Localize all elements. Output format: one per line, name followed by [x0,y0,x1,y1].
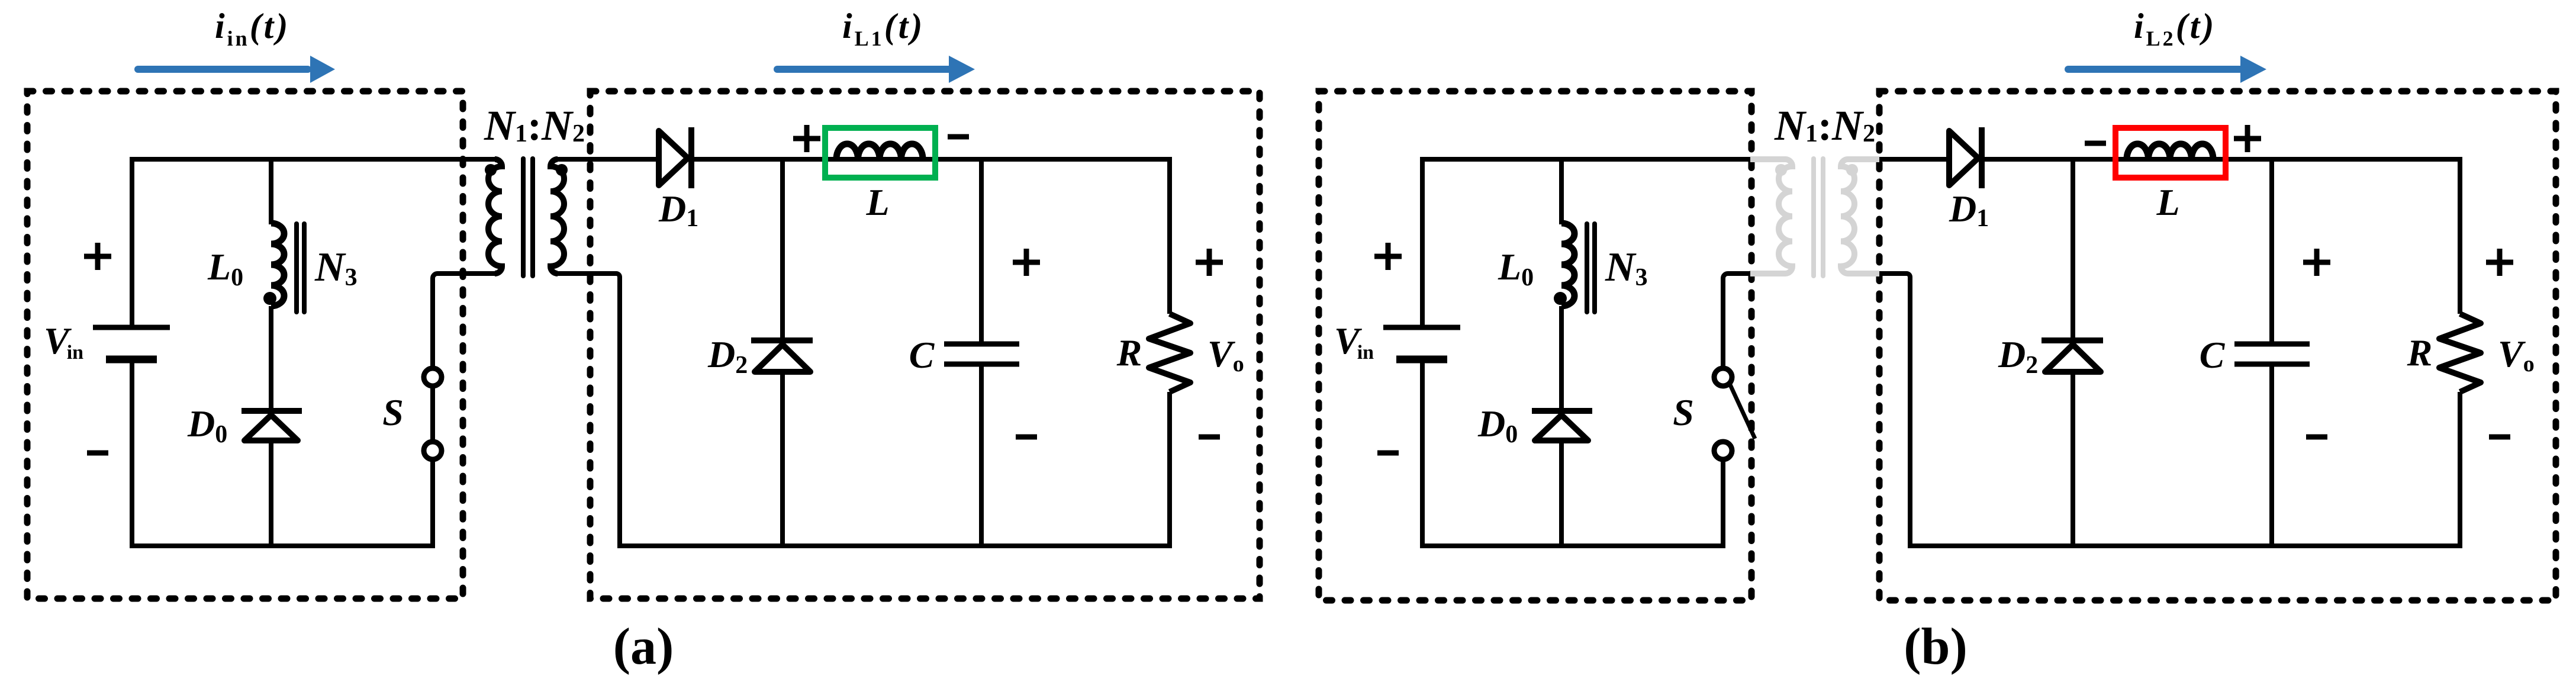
capacitor C bottom plate [944,362,1019,367]
switch S bottom contact [424,442,442,459]
polarity dot primary [485,164,497,176]
resistor R zigzag [2439,314,2481,392]
transformer secondary winding N2 [1841,159,1854,274]
wire: L0 branch top [1559,159,1564,224]
diode D1 cathode bar [688,127,694,188]
wire: output left vertical (from secondary return) [550,266,620,548]
wire: D1 to output top rail through L [1982,157,2460,162]
highlight box around L (red) [2115,128,2226,178]
transformer core bars [1811,159,1816,276]
svg-text:N1:N2: N1:N2 [1774,102,1875,149]
diode D2 triangle [755,345,810,372]
wire: secondary to D1 [558,157,659,162]
wire: secondary to D1 [1879,157,1949,162]
svg-text:R: R [2407,332,2433,374]
polarity - (C) [2306,435,2327,440]
wire: D2 branch vertical [2071,159,2075,338]
current arrow i_L1(t) [777,66,949,73]
wire: capacitor C branch top [979,159,984,342]
battery Vin plate (long, +) [1383,325,1460,330]
wire: battery bottom to ground rail [130,363,134,548]
wire: input top rail [1422,157,1750,162]
capacitor C top plate [2234,342,2310,347]
wire: capacitor C branch top [2269,159,2274,342]
polarity + (C) [1013,260,1040,265]
core bars of L0/N3 [1585,224,1589,312]
wire: transformer primary return to switch S [1723,274,1750,367]
wire: transformer primary return to switch S [433,266,502,367]
transformer core bars [521,159,526,276]
dashed boundary box (input cell a) [27,91,463,599]
wire: L0 to D0 [1559,306,1564,411]
wire: L0 branch top [269,159,273,224]
switch S top contact [1714,368,1732,386]
svg-text:iin(t): iin(t) [215,7,290,50]
battery Vin plate (short, -) [106,356,157,364]
diode D0 triangle [1535,415,1588,440]
wire: D2 anode to bottom rail [780,372,785,548]
wire: input left vertical (battery top) [130,157,134,325]
dashed boundary box (output cell a) [590,91,1260,599]
svg-text:(b): (b) [1904,618,1968,676]
diode D0 triangle [244,415,298,440]
polarity dot secondary [556,164,568,176]
diode D1 cathode bar [1979,127,1985,188]
polarity - (Vo) [1199,435,1220,440]
gray stub: primary bottom to box edge [1750,271,1785,276]
wire: L0 to D0 [269,306,273,411]
polarity + left of L [793,136,820,141]
diode D2 cathode bar [751,337,813,343]
wire: D2 branch vertical [780,159,785,338]
diode D0 cathode bar [1532,408,1592,414]
svg-text:N1:N2: N1:N2 [484,102,585,149]
polarity - left of L [2085,141,2106,146]
battery Vin plate (long, +) [93,325,170,330]
gray stub: secondary bottom to box edge [1848,271,1879,276]
resistor R zigzag [1149,314,1190,392]
capacitor C bottom plate [2234,362,2310,367]
polarity + (Vo) [2486,260,2513,265]
wire: input bottom rail [132,544,433,548]
inductor L humps [836,144,923,159]
switch S bottom contact [1714,442,1732,459]
wire: input top rail [132,157,497,162]
polarity + right of L [2234,136,2261,141]
wire: switch S to bottom rail [1721,460,1725,548]
polarity - right of L [948,134,969,140]
wire: output right vertical top [2458,157,2462,314]
wire: R to bottom rail [2458,392,2462,548]
svg-text:R: R [1116,332,1142,374]
svg-text:(a): (a) [613,618,674,676]
wire: input left vertical (battery top) [1420,157,1425,325]
svg-text:C: C [909,334,935,376]
highlight box around L (green) [825,128,935,178]
inductor L0 winding (coupled, N3) [1561,223,1574,306]
transformer secondary winding N2 [550,159,564,274]
current arrow i_in(t) [138,66,308,73]
switch S closed blade [430,387,435,441]
dashed boundary box (output cell b) [1879,91,2556,600]
diode D2 cathode bar [2042,337,2103,343]
transformer primary winding N1 (gray, inactive) [1750,159,1792,274]
polarity + (Vo) [1196,260,1223,265]
diode D2 triangle [2045,345,2101,372]
capacitor C top plate [944,342,1019,347]
polarity - (C) [1016,435,1037,440]
svg-text:S: S [1673,391,1694,433]
polarity dot on N3 winding [1554,292,1567,305]
label + (Vin positive) [84,254,111,259]
switch S open blade [1730,385,1755,439]
svg-text:S: S [382,391,404,433]
wire: output right vertical top [1167,157,1172,314]
wire: switch S to bottom rail [430,460,435,548]
polarity - (Vo) [2489,435,2510,440]
core bars of L0/N3 [294,224,299,312]
wire: capacitor C to bottom rail [2269,366,2274,548]
label + (Vin positive) [1374,254,1402,259]
label - (Vin negative) [87,451,108,456]
wire: D2 anode to bottom rail [2071,372,2075,548]
wire: capacitor C to bottom rail [979,366,984,548]
svg-text:L: L [2156,181,2179,223]
polarity + (C) [2303,260,2330,265]
svg-text:C: C [2200,334,2226,376]
current arrow i_L2(t) [2068,66,2240,73]
wire: output left vertical (from secondary return) [1879,274,1910,548]
polarity dot on N3 winding [263,292,276,305]
inductor L humps [2127,144,2213,159]
label - (Vin negative) [1377,451,1399,456]
gray stub: secondary top to box edge [1848,156,1879,162]
inductor L0 winding (coupled, N3) [271,223,284,306]
switch S top contact [424,368,442,386]
transformer primary winding N1 (black) [488,159,502,274]
diode D1 triangle [659,131,688,185]
wire: D0 anode to bottom rail [269,440,273,548]
svg-text:L: L [865,181,889,223]
wire: D0 anode to bottom rail [1559,440,1564,548]
wire: output bottom rail [617,544,1172,548]
polarity dot secondary [1846,164,1858,176]
diode D1 triangle [1949,131,1978,185]
diode D0 cathode bar [241,408,302,414]
polarity dot primary [1775,164,1787,176]
wire: R to bottom rail [1167,392,1172,548]
wire: battery bottom to ground rail [1420,363,1425,548]
wire: output bottom rail [1908,544,2462,548]
wire: D1 to output top rail through L [691,157,1170,162]
dashed boundary box (input cell b) [1319,91,1751,600]
battery Vin plate (short, -) [1396,356,1447,364]
wire: input bottom rail [1422,544,1723,548]
